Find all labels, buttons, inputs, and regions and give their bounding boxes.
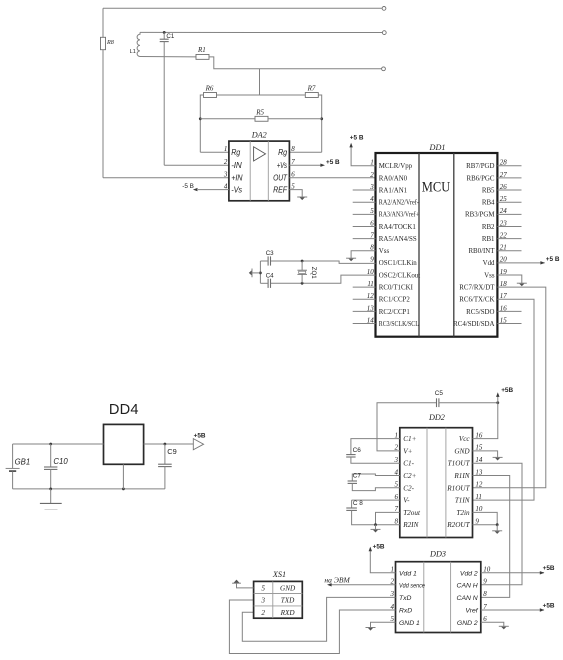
- transceiver DD3 outline: [396, 562, 481, 633]
- power flag +5V at DA2 pin7: [289, 164, 321, 166]
- power flag -5V at DA2 pin4: [198, 189, 229, 191]
- power flag +5V at DD3 Vdd1: [370, 550, 395, 573]
- svg-text:C1: C1: [166, 33, 174, 40]
- wire R7 right corner down: [318, 95, 321, 152]
- wire DD1 RC6 to DD2 T1IN: [473, 299, 535, 500]
- wire DA2 pin8: [289, 151, 321, 153]
- svg-text:+5 В: +5 В: [350, 134, 364, 141]
- capacitor C8: [346, 507, 357, 509]
- wire DD4 bottom rail: [13, 488, 165, 490]
- junction dot osc left: [259, 272, 262, 275]
- wire R5 right: [268, 118, 322, 120]
- ground at DD1 Vss pin8: [351, 251, 375, 258]
- stub DD1 pin 6: [353, 225, 376, 227]
- driver DD2 inner dividers: [426, 428, 428, 538]
- svg-text:T2in: T2in: [456, 509, 470, 517]
- wire DD3 TxD to XS1 RXD: [242, 597, 395, 641]
- svg-text:GND 1: GND 1: [399, 620, 420, 627]
- op-amp U DA2 outline: [229, 141, 290, 201]
- svg-text:ZQ1: ZQ1: [310, 267, 317, 280]
- svg-text:R8: R8: [106, 39, 115, 46]
- stub DD1 pin 16: [497, 310, 521, 312]
- svg-text:RA0/AN0: RA0/AN0: [379, 175, 408, 182]
- svg-text:+5В: +5В: [501, 387, 513, 394]
- junction dot +5V node: [496, 401, 499, 404]
- resistor R6: [204, 93, 217, 98]
- junction dot C10 top: [49, 443, 52, 446]
- wire OSC1 rail: [271, 261, 376, 263]
- svg-text:Vdd sence: Vdd sence: [399, 582, 425, 589]
- battery GB1: [12, 444, 14, 468]
- svg-text:RB3/PGM: RB3/PGM: [465, 212, 495, 219]
- svg-text:RC1/CCP2: RC1/CCP2: [379, 297, 411, 304]
- power flag +5V above DD2: [497, 396, 499, 403]
- junction dot DD4 gnd pin: [122, 488, 125, 491]
- wire battery rail to DD4: [13, 443, 104, 445]
- junction dot R5 right: [320, 117, 323, 120]
- junction dot DD2 gnd node: [374, 523, 377, 526]
- wire C6 to DD2 C1-: [351, 457, 400, 463]
- stub DD1 pin 28: [497, 165, 521, 167]
- svg-text:C1-: C1-: [403, 460, 414, 468]
- wire L1 top rail to connector 2: [140, 31, 382, 33]
- svg-text:CAN H: CAN H: [457, 582, 478, 589]
- stub DD1 pin 13: [353, 310, 376, 312]
- connector X1 circle: [382, 6, 386, 10]
- svg-text:C2-: C2-: [403, 484, 414, 492]
- svg-text:-Vs: -Vs: [231, 185, 242, 195]
- stub DD1 pin 21: [497, 250, 521, 252]
- svg-text:C7: C7: [353, 473, 362, 480]
- junction dot ZQ1 top: [301, 260, 304, 263]
- svg-text:OUT: OUT: [273, 173, 288, 183]
- wire C8 to gnd rail: [352, 510, 376, 524]
- wire DD2 T1OUT to DD3 CANH: [473, 463, 523, 585]
- svg-text:+Vs: +Vs: [277, 160, 288, 170]
- wire DD2 GND pin15: [473, 451, 498, 457]
- svg-text:DD2: DD2: [428, 413, 445, 422]
- svg-text:RB2: RB2: [482, 224, 495, 231]
- svg-text:RA1/AN1: RA1/AN1: [379, 187, 408, 194]
- stub DD1 pin 7: [353, 238, 376, 240]
- power flag +5V at DD3 Vdd2: [481, 572, 544, 574]
- svg-text:11: 11: [475, 493, 481, 501]
- svg-text:+5В: +5В: [373, 543, 385, 550]
- wire DD2 C1+ to C6: [351, 439, 400, 455]
- wire C7 to DD2 C2-: [352, 483, 400, 490]
- svg-text:RA4/TOCK1: RA4/TOCK1: [379, 224, 417, 231]
- wire DD2 C2+ to C7: [352, 474, 400, 481]
- transceiver DD3 inner dividers: [423, 562, 425, 633]
- wire DD2 R1IN to DD3 CANN: [473, 476, 510, 598]
- svg-text:RxD: RxD: [399, 608, 412, 615]
- svg-text:C1+: C1+: [403, 435, 416, 443]
- junction dot C9 top: [164, 443, 167, 446]
- svg-text:C6: C6: [353, 447, 362, 454]
- svg-text:T1OUT: T1OUT: [448, 460, 471, 468]
- ground at DA2 REF: [289, 190, 302, 197]
- svg-text:Rg: Rg: [278, 147, 287, 157]
- resistor R8: [100, 37, 105, 49]
- stub DD1 pin 14: [353, 322, 376, 324]
- power flag +5V triangle at DD4 output: [193, 439, 203, 450]
- wire DD1 RC7 to DD2 R1OUT: [473, 287, 546, 488]
- wire DD3 RxD to XS1 TXD: [229, 600, 395, 654]
- svg-text:RC2/CCP1: RC2/CCP1: [379, 309, 411, 316]
- stub DD1 pin 4: [353, 201, 376, 203]
- svg-text:1: 1: [224, 145, 228, 153]
- op-amp DA2 inner dividers: [249, 141, 251, 201]
- svg-text:Vdd 2: Vdd 2: [460, 570, 478, 577]
- svg-text:Vcc: Vcc: [459, 435, 471, 443]
- junction dot C1 top: [163, 31, 166, 34]
- capacitor C7: [348, 480, 357, 482]
- wire OSC2 rail: [271, 275, 376, 283]
- svg-text:3: 3: [223, 171, 228, 179]
- power flag +5V at DD1 Vdd pin20: [497, 262, 544, 264]
- svg-text:DA2: DA2: [251, 131, 267, 140]
- svg-text:GND: GND: [454, 447, 470, 455]
- svg-text:C2+: C2+: [403, 472, 416, 480]
- svg-text:TXD: TXD: [281, 597, 295, 605]
- svg-text:Vref: Vref: [465, 608, 478, 615]
- ground at osc rail: [252, 272, 260, 274]
- stub DD1 pin 12: [353, 298, 376, 300]
- stub DD1 pin 3: [353, 189, 376, 191]
- svg-text:V+: V+: [403, 447, 412, 455]
- svg-text:T1IN: T1IN: [455, 497, 471, 505]
- svg-text:5: 5: [261, 585, 265, 593]
- wire C4 left: [260, 282, 268, 284]
- svg-text:Vss: Vss: [379, 248, 390, 255]
- svg-text:C9: C9: [167, 447, 176, 456]
- svg-text:2: 2: [370, 171, 374, 179]
- svg-text:+5В: +5В: [194, 433, 206, 440]
- wire R6 left corner down: [200, 95, 203, 152]
- resistor R1: [196, 54, 209, 59]
- svg-text:GB1: GB1: [15, 458, 31, 467]
- svg-text:OSC1/CLKin: OSC1/CLKin: [379, 260, 417, 267]
- svg-text:RB4: RB4: [482, 200, 495, 207]
- svg-text:8: 8: [291, 145, 295, 153]
- wire R6 to R7: [217, 94, 306, 96]
- svg-text:RB6/PGC: RB6/PGC: [467, 175, 495, 182]
- svg-text:2: 2: [224, 158, 228, 166]
- svg-text:R2IN: R2IN: [402, 521, 419, 529]
- stub DD1 pin 23: [497, 225, 521, 227]
- svg-text:RC0/T1CKI: RC0/T1CKI: [379, 285, 414, 292]
- svg-text:MCU: MCU: [422, 180, 451, 196]
- ground at DD3 GND2: [481, 622, 504, 626]
- svg-text:R5: R5: [255, 108, 264, 116]
- regulator DD4 outline: [104, 424, 144, 464]
- svg-text:XS1: XS1: [272, 570, 286, 579]
- svg-text:Vdd 1: Vdd 1: [399, 570, 417, 577]
- svg-text:RC3/SCLK/SCL: RC3/SCLK/SCL: [379, 321, 419, 328]
- wire R1 to connector 3: [209, 57, 381, 69]
- stub DD1 pin 25: [497, 201, 521, 203]
- svg-text:+5В: +5В: [543, 602, 555, 609]
- svg-text:-5 В: -5 В: [182, 183, 194, 190]
- wire node A to DA2 pin3: [103, 177, 229, 179]
- wire R8 to DA2 +IN row: [102, 50, 104, 178]
- wire left vertical from top rail to R8: [102, 8, 104, 37]
- wire R5 left: [200, 118, 255, 120]
- svg-text:DD3: DD3: [429, 550, 446, 559]
- wire DD2 T2out down: [376, 512, 400, 524]
- stub DD1 pin 22: [497, 238, 521, 240]
- svg-text:GND: GND: [280, 585, 296, 593]
- svg-text:R1OUT: R1OUT: [446, 484, 470, 492]
- svg-text:Vss: Vss: [484, 272, 495, 279]
- svg-text:+IN: +IN: [231, 173, 243, 183]
- capacitor C1: [163, 32, 165, 39]
- svg-text:Vdd: Vdd: [483, 260, 495, 267]
- svg-text:DD1: DD1: [429, 143, 446, 152]
- svg-text:8: 8: [483, 590, 487, 598]
- stub DD1 pin 27: [497, 177, 521, 179]
- svg-text:на ЭВМ: на ЭВМ: [324, 576, 350, 585]
- junction dot C10 bottom: [49, 488, 52, 491]
- junction dot R5 left: [199, 117, 202, 120]
- ground at DD2 R2IN: [375, 525, 377, 530]
- svg-text:C3: C3: [266, 250, 274, 257]
- svg-text:RC4/SDI/SDA: RC4/SDI/SDA: [453, 321, 494, 328]
- crystal ZQ1: [301, 261, 303, 270]
- stub DD1 pin 24: [497, 213, 521, 215]
- svg-text:RA3/AN3/Vref+: RA3/AN3/Vref+: [379, 212, 419, 219]
- svg-text:C5: C5: [435, 390, 444, 397]
- stub DD1 pin 26: [497, 189, 521, 191]
- resistor R7: [305, 93, 318, 98]
- driver DD2 outline: [400, 428, 473, 538]
- wire DD4 output: [144, 443, 194, 445]
- wire DD2 R2OUT: [473, 524, 498, 526]
- capacitor C10: [50, 444, 52, 467]
- svg-text:12: 12: [475, 481, 483, 489]
- wire DD2 T2in down: [473, 512, 498, 524]
- wire C5 to +5V node: [439, 402, 498, 404]
- signal flag na EVM at DD3 pin2: [331, 584, 396, 586]
- svg-text:R2OUT: R2OUT: [446, 521, 470, 529]
- svg-text:REF: REF: [273, 185, 288, 195]
- svg-text:R1: R1: [197, 46, 206, 54]
- wire tap to feedback net: [259, 69, 261, 95]
- ground at XS1 GND: [237, 583, 254, 588]
- connector XS1 outline: [254, 581, 303, 618]
- wire to DA2 pin1: [200, 151, 229, 153]
- stub DD1 pin 5: [353, 213, 376, 215]
- connector X2 circle: [382, 31, 386, 35]
- wire +5V node to DD2 Vcc: [473, 403, 498, 439]
- svg-text:RA5/AN4/SS: RA5/AN4/SS: [379, 236, 417, 243]
- svg-text:RXD: RXD: [280, 609, 296, 617]
- wire DD2 R2IN: [376, 524, 400, 526]
- svg-text:RA2/AN2/Vref-: RA2/AN2/Vref-: [379, 200, 420, 207]
- wire top rail to connector 1: [103, 7, 382, 9]
- svg-text:T2out: T2out: [403, 509, 421, 517]
- svg-text:+5 В: +5 В: [546, 256, 560, 263]
- svg-text:RB5: RB5: [482, 187, 495, 194]
- svg-text:MCLR/Vpp: MCLR/Vpp: [379, 163, 413, 170]
- capacitor C6: [346, 454, 355, 456]
- capacitor C4: [267, 279, 269, 288]
- svg-text:Rg: Rg: [231, 147, 240, 157]
- svg-text:RB7/PGD: RB7/PGD: [466, 163, 494, 170]
- wire C1 to DA2 -IN: [163, 42, 165, 166]
- svg-text:3: 3: [260, 597, 265, 605]
- capacitor C3: [267, 256, 269, 265]
- MCU DD1 inner dividers: [418, 153, 420, 337]
- ground at DD3 GND1: [371, 622, 396, 627]
- svg-text:RC7/RX/DT: RC7/RX/DT: [459, 285, 495, 292]
- wire DD4 gnd pin: [122, 464, 124, 489]
- svg-text:-IN: -IN: [231, 160, 242, 170]
- svg-text:2: 2: [261, 609, 265, 617]
- svg-text:9: 9: [370, 256, 374, 264]
- ground at DD2 R2OUT: [496, 525, 498, 531]
- svg-text:RB0/INT: RB0/INT: [468, 248, 495, 255]
- svg-text:+5В: +5В: [543, 565, 555, 572]
- wire C3 left: [260, 260, 268, 262]
- svg-text:GND 2: GND 2: [457, 620, 478, 627]
- svg-text:C10: C10: [53, 457, 68, 466]
- capacitor C5: [436, 398, 438, 407]
- svg-text:RB1: RB1: [482, 236, 495, 243]
- svg-text:9: 9: [483, 578, 487, 586]
- wire DD2 V- to C8: [352, 499, 400, 501]
- inductor L1: [137, 32, 140, 56]
- svg-text:R6: R6: [205, 85, 214, 93]
- wire osc left rail: [259, 261, 261, 283]
- svg-text:TxD: TxD: [399, 595, 412, 602]
- stub DD1 pin 11: [353, 286, 376, 288]
- connector X3 circle: [382, 67, 386, 71]
- junction dot T2in R2OUT: [496, 523, 499, 526]
- svg-text:RC5/SDO: RC5/SDO: [466, 309, 494, 316]
- connector XS1 grid: [272, 581, 274, 618]
- resistor R5: [255, 116, 268, 121]
- capacitor C9: [164, 444, 166, 464]
- power flag +5V at MCLR pin1: [351, 146, 375, 166]
- MCU DD1 outline: [376, 153, 498, 337]
- svg-text:+5 В: +5 В: [326, 159, 340, 166]
- svg-text:CAN N: CAN N: [457, 595, 478, 602]
- svg-text:R7: R7: [307, 85, 316, 93]
- power flag +5V at DD3 Vref: [481, 609, 544, 611]
- svg-text:C4: C4: [266, 272, 274, 279]
- wire L1 bottom rail: [140, 55, 196, 57]
- ground at C10: [50, 489, 52, 503]
- junction dot ZQ1 bottom: [301, 282, 304, 285]
- stub DD1 pin 15: [497, 322, 521, 324]
- wire DA2 OUT to DD1 RA0: [289, 177, 375, 179]
- svg-text:DD4: DD4: [109, 402, 139, 418]
- svg-text:R1IN: R1IN: [453, 472, 470, 480]
- svg-text:V-: V-: [403, 497, 410, 505]
- svg-text:L1: L1: [130, 49, 136, 55]
- svg-text:RC6/TX/CK: RC6/TX/CK: [459, 297, 494, 304]
- svg-text:C 8: C 8: [353, 500, 363, 507]
- ground at DD1 Vss pin19: [497, 275, 521, 283]
- svg-text:OSC2/CLKout: OSC2/CLKout: [379, 272, 420, 279]
- op-amp DA2 triangle: [254, 147, 266, 161]
- wire DD2 V+ to C5: [377, 403, 437, 451]
